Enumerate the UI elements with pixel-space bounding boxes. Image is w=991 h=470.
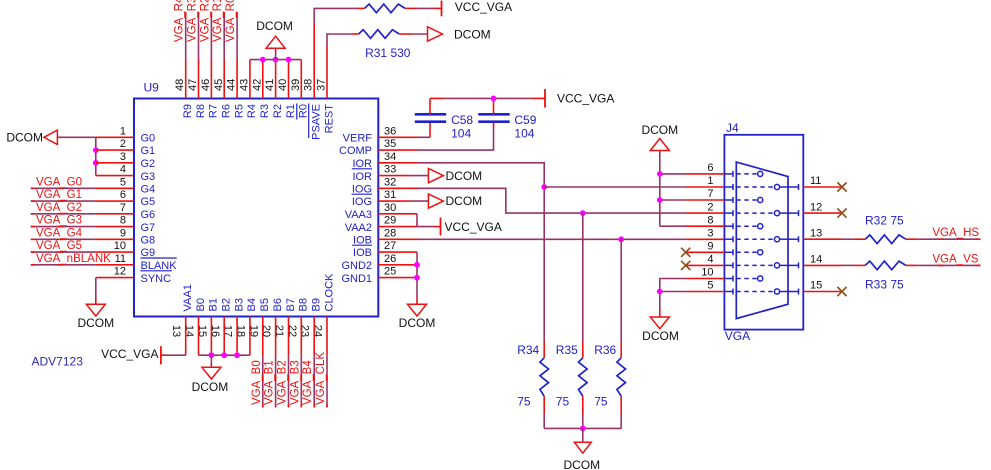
R35 value 75 bbox=[556, 394, 570, 408]
svg-text:B9: B9 bbox=[311, 298, 323, 311]
junction J4 pin7 bbox=[657, 197, 663, 203]
net label VGA_B3 (rotated) bbox=[289, 360, 301, 405]
DCOM off-page connector (IOR) bbox=[428, 168, 482, 182]
svg-text:2: 2 bbox=[120, 138, 126, 150]
pin 28 IOB wire (blue video) to VGA pin3 and R36 bbox=[378, 238, 724, 240]
svg-text:VGA_G2: VGA_G2 bbox=[36, 202, 82, 214]
svg-text:VGA_B2: VGA_B2 bbox=[277, 360, 289, 405]
junction IOR branch bbox=[541, 184, 547, 190]
J4 pin 9 no-connect wire bbox=[686, 251, 725, 253]
svg-text:R0: R0 bbox=[298, 104, 310, 118]
svg-text:B4: B4 bbox=[246, 298, 258, 311]
svg-text:B8: B8 bbox=[298, 298, 310, 311]
svg-text:12: 12 bbox=[810, 201, 822, 213]
svg-text:COMP: COMP bbox=[339, 145, 372, 157]
J4 pin 11 no-connect wire bbox=[803, 186, 842, 188]
svg-text:75: 75 bbox=[517, 394, 531, 408]
pin 36 VERF wire to C58 bbox=[378, 122, 430, 138]
power symbol VCC_VGA bottom bbox=[101, 346, 161, 364]
net label VGA_R2 (rotated) bbox=[199, 0, 211, 42]
pins 14-18 wires B0-B4 grounded bbox=[199, 317, 250, 356]
svg-text:32: 32 bbox=[384, 176, 396, 188]
svg-text:11: 11 bbox=[115, 253, 126, 265]
svg-text:SYNC: SYNC bbox=[141, 273, 172, 285]
D-sub shell outline bbox=[736, 162, 788, 319]
junction pin2 bbox=[93, 147, 99, 153]
svg-text:104: 104 bbox=[514, 126, 534, 140]
ground DCOM (GND pins) bbox=[399, 304, 436, 330]
svg-text:VAA1: VAA1 bbox=[182, 284, 194, 311]
wire resistor to VCC_VGA bar bbox=[405, 7, 441, 9]
svg-text:36: 36 bbox=[384, 125, 396, 137]
junction pin3 bbox=[93, 160, 99, 166]
resistor R34 75 termination bbox=[540, 341, 549, 428]
net label VGA_G4 bbox=[36, 227, 83, 239]
DCOM tie rail pins 43-39 bbox=[250, 59, 301, 61]
C59 value 104 bbox=[514, 126, 534, 140]
svg-text:75: 75 bbox=[594, 394, 608, 408]
svg-text:DCOM: DCOM bbox=[256, 19, 293, 33]
net label VGA_G1 bbox=[36, 189, 82, 201]
svg-text:R7: R7 bbox=[208, 104, 220, 118]
junction IOG to R35 bbox=[580, 210, 586, 216]
svg-text:REST: REST bbox=[323, 104, 335, 134]
svg-text:VCC_VGA: VCC_VGA bbox=[557, 92, 614, 106]
svg-text:B2: B2 bbox=[221, 298, 233, 311]
DCOM off-page connector left (pin1) bbox=[6, 130, 57, 144]
J4 pin 15 no-connect wire bbox=[803, 291, 842, 293]
U9 right pin names VERF COMP IOR IOG VAA VAA IOB GND bbox=[339, 133, 372, 285]
junction J4 pin5 bbox=[657, 289, 663, 295]
svg-text:38: 38 bbox=[303, 79, 315, 91]
DCOM off-page connector (IOG) bbox=[428, 194, 482, 208]
R36 value 75 bbox=[594, 394, 608, 408]
net VGA_B2 wire pin 21 bbox=[288, 317, 290, 408]
net VGA_B4 wire pin 23 bbox=[313, 317, 315, 408]
svg-text:3: 3 bbox=[707, 227, 713, 239]
svg-text:10: 10 bbox=[114, 240, 126, 252]
svg-text:R8: R8 bbox=[195, 104, 207, 118]
ground DCOM (SYNC) bbox=[77, 304, 114, 330]
resistor R36 75 termination bbox=[617, 341, 626, 428]
resistor R31 530 bbox=[359, 30, 400, 39]
svg-text:28: 28 bbox=[384, 227, 396, 239]
ground rail R34-R36 bbox=[544, 427, 621, 429]
J4 upper-row pin contacts 6-10 bbox=[736, 171, 763, 281]
net VGA_G2 wire pin 7 bbox=[31, 213, 134, 215]
svg-text:IOR: IOR bbox=[352, 171, 372, 183]
power symbol VCC_VGA top bbox=[442, 0, 513, 16]
U9 reference designator bbox=[144, 81, 160, 95]
net label VGA_CLK (rotated) bbox=[315, 352, 327, 405]
wire R36 drop bbox=[620, 239, 622, 341]
wire J4 pins 10 5 to DCOM bbox=[660, 279, 725, 318]
svg-text:B5: B5 bbox=[259, 298, 271, 311]
J4 pin 14 wire to R33 bbox=[803, 264, 865, 266]
svg-text:45: 45 bbox=[213, 79, 225, 91]
svg-text:104: 104 bbox=[451, 126, 471, 140]
svg-text:R36: R36 bbox=[594, 343, 616, 357]
resistor R30 pull-up to VCC_VGA bbox=[365, 4, 406, 13]
net label VGA_G2 bbox=[36, 202, 82, 214]
svg-text:DCOM: DCOM bbox=[6, 131, 43, 145]
junction R35 ground bbox=[580, 426, 586, 432]
junction C59 top bbox=[491, 96, 497, 102]
resistor R35 75 termination bbox=[579, 341, 588, 428]
net VGA_B1 wire pin 20 bbox=[275, 317, 277, 408]
net label VGA_VS bbox=[932, 253, 978, 265]
junction GND2 bbox=[414, 262, 420, 268]
svg-text:9: 9 bbox=[707, 241, 713, 253]
U9 left pin names G0-G9 BLANK SYNC bbox=[141, 133, 178, 285]
junction pin17 bbox=[234, 352, 240, 358]
svg-text:6: 6 bbox=[120, 189, 126, 201]
power symbol VCC_VGA (VAA) bbox=[441, 218, 502, 236]
net label VGA_R1 (rotated) bbox=[212, 0, 224, 42]
svg-text:39: 39 bbox=[290, 79, 302, 91]
R31 value label bbox=[365, 46, 411, 60]
net VGA_CLK wire pin 24 bbox=[326, 317, 328, 408]
R35 reference label bbox=[556, 343, 578, 357]
svg-text:2: 2 bbox=[707, 201, 713, 213]
svg-text:DCOM: DCOM bbox=[192, 380, 229, 394]
no-connect X pin 11 bbox=[837, 182, 846, 191]
svg-text:25: 25 bbox=[384, 266, 396, 278]
svg-text:15: 15 bbox=[810, 280, 822, 292]
svg-text:3: 3 bbox=[120, 151, 126, 163]
pin 34 IOR wire (red video) to VGA pin1 and R34 bbox=[378, 163, 544, 342]
pin 38 PSAVE wire to pull-up resistor bbox=[314, 8, 364, 98]
net label VGA_B2 (rotated) bbox=[277, 360, 289, 405]
pin 31 IOG wire to DCOM arrow bbox=[378, 200, 428, 202]
svg-text:IOB: IOB bbox=[353, 247, 372, 259]
no-connect X pin 15 bbox=[837, 287, 846, 296]
wire IOR to VGA pin 1 bbox=[544, 186, 724, 188]
svg-text:VGA_B4: VGA_B4 bbox=[302, 360, 314, 405]
svg-text:G4: G4 bbox=[141, 184, 156, 196]
svg-text:DCOM: DCOM bbox=[454, 27, 491, 41]
net label VGA_nBLANK bbox=[36, 253, 111, 265]
svg-text:75: 75 bbox=[556, 394, 570, 408]
decoupling rail C58 C59 to VCC_VGA bbox=[430, 97, 545, 99]
junction pin41 bbox=[273, 57, 279, 63]
J4 pin 13 wire to R32 bbox=[803, 238, 865, 240]
net label VGA_G0 bbox=[36, 176, 82, 188]
svg-text:VGA: VGA bbox=[725, 329, 750, 343]
net VGA_HS wire bbox=[906, 238, 981, 240]
svg-text:VGA_G1: VGA_G1 bbox=[36, 189, 82, 201]
net VGA_G4 wire pin 9 bbox=[31, 238, 134, 240]
U9 bottom pin numbers 13-24 (rotated) bbox=[170, 325, 323, 337]
svg-text:G8: G8 bbox=[141, 235, 156, 247]
svg-text:VERF: VERF bbox=[343, 133, 373, 145]
svg-text:6: 6 bbox=[707, 162, 713, 174]
svg-text:R9: R9 bbox=[182, 104, 194, 118]
net VGA_R1 wire pin 45 bbox=[223, 12, 225, 99]
pin 32 IOG wire (green video) to VGA pin2 and R35 bbox=[378, 188, 724, 213]
svg-text:G2: G2 bbox=[141, 158, 156, 170]
svg-text:R6: R6 bbox=[221, 104, 233, 118]
net VGA_G5 wire pin 10 bbox=[31, 251, 134, 253]
net VGA_nBLANK wire pin 11 bbox=[31, 264, 134, 266]
svg-text:VGA_B0: VGA_B0 bbox=[251, 360, 263, 405]
junction pin40 bbox=[286, 57, 292, 63]
svg-text:1: 1 bbox=[707, 175, 713, 187]
svg-text:14: 14 bbox=[810, 254, 822, 266]
svg-text:26: 26 bbox=[384, 253, 396, 265]
svg-text:G5: G5 bbox=[141, 196, 156, 208]
DCOM tie rail pins 14-18 bbox=[199, 354, 250, 356]
svg-text:31: 31 bbox=[384, 189, 396, 201]
pin 4 wire bbox=[96, 175, 134, 177]
DCOM off-page connector (REST) bbox=[428, 27, 491, 42]
no-connect X pin 9 bbox=[681, 248, 690, 257]
svg-text:R3: R3 bbox=[259, 104, 271, 118]
pin 2 wire bbox=[96, 149, 134, 151]
connector J4 body bbox=[724, 135, 803, 330]
svg-text:R33 75: R33 75 bbox=[865, 278, 904, 292]
R34 value 75 bbox=[517, 394, 531, 408]
capacitor C59 bbox=[478, 98, 509, 121]
svg-text:4: 4 bbox=[707, 254, 713, 266]
svg-text:13: 13 bbox=[810, 227, 822, 239]
net label VGA_R3 (rotated) bbox=[187, 0, 199, 42]
svg-text:14: 14 bbox=[183, 325, 195, 337]
no-connect X pin 4 bbox=[681, 261, 690, 270]
svg-text:VGA_B3: VGA_B3 bbox=[289, 360, 301, 405]
resistor R32 75 series bbox=[865, 235, 906, 244]
svg-text:7: 7 bbox=[707, 188, 713, 200]
svg-text:29: 29 bbox=[384, 215, 396, 227]
J4 pin 4 no-connect wire bbox=[686, 264, 725, 266]
svg-text:DCOM: DCOM bbox=[642, 329, 679, 343]
C58 value 104 bbox=[451, 126, 471, 140]
capacitor C58 bbox=[415, 98, 446, 121]
svg-text:VGA_B1: VGA_B1 bbox=[264, 360, 276, 405]
svg-text:G6: G6 bbox=[141, 209, 156, 221]
svg-text:40: 40 bbox=[277, 79, 289, 91]
J4 right pin numbers 11-15 bbox=[810, 175, 822, 292]
U9 right pin numbers 36-25 bbox=[384, 125, 396, 277]
junction GND1 bbox=[414, 275, 420, 281]
svg-text:41: 41 bbox=[264, 79, 276, 91]
U9 top pin names R9-R0 PSAVE REST (rotated) bbox=[182, 104, 335, 140]
svg-text:G1: G1 bbox=[141, 145, 156, 157]
svg-text:G7: G7 bbox=[141, 222, 156, 234]
svg-text:24: 24 bbox=[312, 325, 324, 337]
junction pin42 bbox=[260, 57, 266, 63]
net VGA_G1 wire pin 6 bbox=[31, 200, 134, 202]
svg-text:VAA2: VAA2 bbox=[345, 222, 372, 234]
svg-text:U9: U9 bbox=[144, 81, 160, 95]
svg-text:VGA_G5: VGA_G5 bbox=[36, 240, 82, 252]
net VGA_B3 wire pin 22 bbox=[300, 317, 302, 408]
svg-text:DCOM: DCOM bbox=[641, 123, 678, 137]
net VGA_G3 wire pin 8 bbox=[31, 226, 134, 228]
svg-text:33: 33 bbox=[384, 164, 396, 176]
svg-text:R32 75: R32 75 bbox=[865, 214, 904, 228]
J4 left pin stubs bbox=[724, 171, 733, 295]
U9 top pin numbers 48-37 (rotated) bbox=[174, 79, 327, 91]
svg-text:43: 43 bbox=[238, 79, 250, 91]
svg-text:GND1: GND1 bbox=[341, 273, 372, 285]
svg-text:B3: B3 bbox=[233, 298, 245, 311]
net label VGA_R0 (rotated) bbox=[225, 0, 237, 42]
svg-text:13: 13 bbox=[170, 325, 182, 337]
svg-text:VGA_VS: VGA_VS bbox=[932, 253, 978, 265]
no-connect X pin 12 bbox=[837, 209, 846, 218]
R32 value label bbox=[865, 214, 904, 228]
pin 33 IOR wire to DCOM arrow bbox=[378, 175, 428, 177]
pins 43-39 wires to DCOM rail bbox=[250, 60, 301, 99]
net label VGA_B4 (rotated) bbox=[302, 360, 314, 405]
junction pin15 bbox=[209, 352, 215, 358]
pins 30 29 VAA3 VAA2 wires to VCC_VGA bbox=[378, 214, 440, 227]
svg-text:10: 10 bbox=[701, 267, 713, 279]
svg-text:4: 4 bbox=[120, 164, 126, 176]
svg-text:30: 30 bbox=[384, 202, 396, 214]
net label VGA_B0 (rotated) bbox=[251, 360, 263, 405]
J4 left pin numbers bbox=[701, 162, 713, 292]
svg-text:VGA_R2: VGA_R2 bbox=[199, 0, 211, 42]
ground DCOM above J4 (up triangle) bbox=[641, 123, 678, 151]
svg-text:VCC_VGA: VCC_VGA bbox=[455, 0, 512, 14]
svg-text:47: 47 bbox=[187, 79, 199, 91]
svg-text:27: 27 bbox=[384, 240, 396, 252]
R34 reference label bbox=[517, 343, 539, 357]
svg-text:7: 7 bbox=[120, 202, 126, 214]
svg-text:8: 8 bbox=[120, 215, 126, 227]
pin 37 REST wire to R31 bbox=[327, 34, 359, 99]
power symbol VCC_VGA mid bbox=[545, 89, 614, 108]
C59 reference label bbox=[514, 113, 536, 127]
J4 lower-row pin contacts 1-5 bbox=[736, 184, 788, 294]
svg-text:DCOM: DCOM bbox=[446, 194, 483, 208]
J4 reference designator bbox=[726, 121, 739, 135]
svg-text:11: 11 bbox=[810, 175, 821, 187]
svg-text:21: 21 bbox=[273, 325, 285, 337]
net VGA_VS wire bbox=[906, 264, 981, 266]
svg-text:R34: R34 bbox=[517, 343, 539, 357]
svg-text:DCOM: DCOM bbox=[563, 458, 600, 470]
wire R35 drop bbox=[582, 213, 584, 341]
svg-text:PSAVE: PSAVE bbox=[311, 104, 323, 140]
J4 part name VGA bbox=[725, 329, 750, 343]
ground DCOM below J4 bbox=[642, 317, 679, 343]
net label VGA_G3 bbox=[36, 215, 82, 227]
wire bus tie pins 1-4 bbox=[95, 137, 97, 175]
U9 bottom pin names VAA1 B0-B9 CLOCK (rotated) bbox=[182, 273, 335, 312]
svg-text:12: 12 bbox=[114, 266, 126, 278]
svg-text:B6: B6 bbox=[272, 298, 284, 311]
svg-text:VGA_G0: VGA_G0 bbox=[36, 176, 82, 188]
svg-text:R5: R5 bbox=[233, 104, 245, 118]
net VGA_R4 wire pin 48 bbox=[185, 12, 187, 99]
svg-text:35: 35 bbox=[384, 138, 396, 150]
svg-text:VGA_R1: VGA_R1 bbox=[212, 0, 224, 42]
ADV7123 part label bbox=[32, 355, 84, 369]
svg-text:VGA_R3: VGA_R3 bbox=[187, 0, 199, 42]
svg-text:R2: R2 bbox=[272, 104, 284, 118]
net label VGA_G5 bbox=[36, 240, 82, 252]
svg-text:VGA_HS: VGA_HS bbox=[932, 227, 979, 239]
svg-text:VGA_R0: VGA_R0 bbox=[225, 0, 237, 42]
svg-text:20: 20 bbox=[260, 325, 272, 337]
svg-text:G3: G3 bbox=[141, 171, 156, 183]
U9 left pin numbers 1-12 bbox=[114, 125, 126, 277]
svg-text:DCOM: DCOM bbox=[399, 316, 436, 330]
svg-text:VCC_VGA: VCC_VGA bbox=[445, 220, 502, 234]
svg-text:5: 5 bbox=[120, 176, 126, 188]
net VGA_R2 wire pin 46 bbox=[210, 12, 212, 99]
svg-text:J4: J4 bbox=[726, 121, 739, 135]
svg-text:VGA_CLK: VGA_CLK bbox=[315, 352, 327, 405]
pin 12 SYNC wire to ground bbox=[96, 278, 134, 305]
svg-text:VCC_VGA: VCC_VGA bbox=[101, 347, 158, 361]
svg-text:9: 9 bbox=[120, 227, 126, 239]
svg-text:5: 5 bbox=[707, 280, 713, 292]
svg-text:22: 22 bbox=[286, 325, 298, 337]
R36 reference label bbox=[594, 343, 616, 357]
J4 right pin stubs bbox=[788, 184, 799, 295]
IC U9 ADV7123 body bbox=[134, 99, 378, 317]
svg-text:VGA_nBLANK: VGA_nBLANK bbox=[36, 253, 111, 265]
svg-text:C59: C59 bbox=[514, 113, 536, 127]
pin 3 wire bbox=[96, 162, 134, 164]
svg-text:37: 37 bbox=[316, 79, 328, 91]
svg-text:DCOM: DCOM bbox=[77, 316, 114, 330]
svg-text:8: 8 bbox=[707, 214, 713, 226]
svg-text:B1: B1 bbox=[208, 298, 220, 311]
C58 reference label bbox=[451, 113, 473, 127]
svg-text:VGA_R4: VGA_R4 bbox=[174, 0, 186, 42]
svg-text:C58: C58 bbox=[451, 113, 473, 127]
pins 27 26 25 IOB GND2 GND1 wires to ground bbox=[378, 252, 417, 304]
svg-text:DCOM: DCOM bbox=[446, 169, 483, 183]
svg-text:VAA3: VAA3 bbox=[345, 209, 372, 221]
resistor R33 75 series bbox=[865, 261, 906, 270]
ground DCOM (terminations) bbox=[563, 428, 600, 470]
svg-text:VGA_G4: VGA_G4 bbox=[36, 227, 83, 239]
junction J4 pin6 bbox=[657, 171, 663, 177]
ground DCOM below chip bbox=[192, 355, 229, 394]
svg-text:B7: B7 bbox=[285, 298, 297, 311]
ground DCOM above chip (up triangle) bbox=[256, 19, 293, 60]
svg-text:IOG: IOG bbox=[352, 196, 372, 208]
pin 35 COMP wire to C59 bbox=[378, 122, 493, 150]
pin 1 wire to DCOM off-page arrow bbox=[57, 136, 134, 138]
junction pin16 bbox=[221, 352, 227, 358]
wire DCOM to J4 pins 6 7 8 bbox=[660, 151, 725, 227]
net label VGA_R4 (rotated) bbox=[174, 0, 186, 42]
junction IOB to R36 bbox=[618, 236, 624, 242]
svg-text:CLOCK: CLOCK bbox=[323, 273, 335, 312]
svg-text:R35: R35 bbox=[556, 343, 578, 357]
svg-text:VGA_G3: VGA_G3 bbox=[36, 215, 82, 227]
svg-text:48: 48 bbox=[174, 79, 186, 91]
net label VGA_HS bbox=[932, 227, 979, 239]
R33 value label bbox=[865, 278, 904, 292]
svg-text:34: 34 bbox=[384, 151, 396, 163]
net VGA_G0 wire pin 5 bbox=[31, 187, 134, 189]
net label VGA_B1 (rotated) bbox=[264, 360, 276, 405]
svg-text:R1: R1 bbox=[285, 104, 297, 118]
svg-text:GND2: GND2 bbox=[341, 260, 372, 272]
wire R31 to DCOM arrow bbox=[399, 33, 427, 35]
J4 pin 12 no-connect wire bbox=[803, 212, 842, 214]
svg-text:B0: B0 bbox=[195, 298, 207, 311]
svg-text:G0: G0 bbox=[141, 133, 156, 145]
